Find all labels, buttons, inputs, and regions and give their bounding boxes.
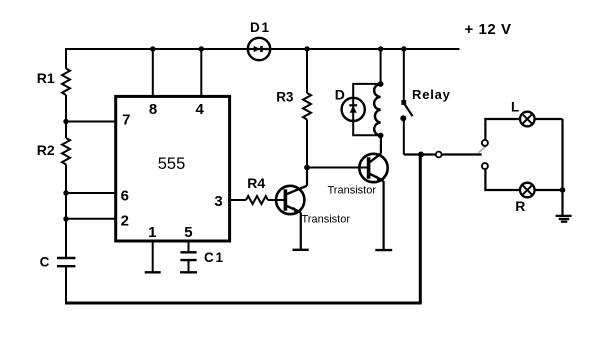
svg-text:Transistor: Transistor	[328, 184, 377, 196]
transistor Q2	[359, 136, 388, 250]
node: pin 8 rail junction	[150, 46, 155, 51]
wire: rail to R3	[306, 49, 308, 93]
wire: node to pin 2	[66, 218, 117, 220]
ground (earth)	[556, 216, 572, 222]
relay switch (coil-operated contact)	[400, 46, 412, 154]
svg-text:555: 555	[158, 155, 186, 173]
node: lamp R / ground bus junction	[560, 187, 566, 193]
capacitor C1	[180, 252, 196, 260]
svg-text:D: D	[335, 86, 345, 102]
connector: open terminal on common wire	[436, 152, 442, 158]
op-amp U1: 555 timer IC body	[116, 96, 230, 241]
svg-text:R: R	[515, 198, 525, 214]
wire: right bus vertical	[561, 119, 563, 216]
wire: node down to Q1 collector	[306, 168, 308, 186]
node: Q1 collector / Q2 base junction	[304, 165, 310, 171]
svg-text:C1: C1	[204, 250, 225, 265]
changeover blade (faint)	[478, 146, 486, 152]
node: coil bottom / D anode	[378, 133, 384, 139]
wire: node to R2	[65, 122, 67, 139]
wire: pin 8 to rail	[152, 49, 154, 96]
svg-text:R1: R1	[37, 70, 55, 86]
svg-text:R4: R4	[247, 175, 265, 191]
resistor R2	[62, 138, 70, 165]
wire: node to pin 7	[66, 121, 117, 123]
ground: Q2 emitter	[375, 249, 392, 251]
svg-text:Relay: Relay	[412, 87, 451, 102]
wire: rail to relay coil	[380, 49, 382, 84]
diode D (flyback, in circle)	[342, 84, 381, 135]
contact: lower (to lamp R)	[482, 163, 488, 169]
svg-text:1: 1	[148, 224, 156, 241]
svg-text:+ 12 V: + 12 V	[465, 21, 512, 38]
wire: R1 to node	[65, 95, 67, 122]
svg-text:3: 3	[214, 193, 222, 210]
wire: R2 down to capacitor C	[65, 165, 67, 258]
svg-text:C: C	[40, 254, 50, 269]
transistor Q1	[276, 186, 307, 249]
wire: pin 4 to rail	[200, 49, 202, 96]
wire: node to pin 6	[66, 192, 117, 194]
wire: lower contact to lamp R	[485, 169, 520, 190]
svg-text:4: 4	[196, 101, 205, 118]
svg-text:7: 7	[122, 112, 130, 129]
node: return junction	[418, 152, 424, 158]
wire: R3 to collector node	[306, 120, 308, 168]
ground: C1	[180, 271, 197, 273]
node: R3 rail junction	[304, 46, 309, 51]
lamp L	[520, 112, 535, 127]
wire: C1 to ground	[188, 261, 190, 272]
wire: pin 1 to ground	[152, 241, 154, 272]
wire: bottom rail	[65, 302, 422, 305]
node: pin 4 rail junction	[199, 46, 204, 51]
svg-text:Transistor: Transistor	[302, 213, 351, 225]
wire: upper contact to lamp L	[485, 119, 520, 140]
svg-text:8: 8	[149, 101, 157, 118]
node: coil rail junction	[378, 46, 383, 51]
wire: switch to changeover common	[404, 153, 482, 155]
svg-text:L: L	[511, 100, 519, 115]
node: R1/R2/pin7 junction	[63, 119, 68, 124]
resistor R1	[62, 69, 70, 96]
node: pin 2 tap	[63, 216, 68, 221]
wire: lamp L to right bus	[535, 118, 563, 120]
relay coil (inductor)	[374, 84, 380, 136]
resistor R4	[246, 196, 268, 204]
svg-text:6: 6	[121, 187, 129, 204]
wire: R4 to Q1 base	[268, 199, 280, 201]
node: pin 6 tap	[63, 190, 68, 195]
wire: C to bottom rail	[65, 267, 67, 303]
wire: pin 3 to R4	[230, 199, 246, 201]
node: coil top / D cathode	[378, 81, 384, 87]
wire: right return vertical	[419, 155, 422, 305]
resistor R3	[303, 93, 311, 120]
wire: +12V top rail	[66, 48, 460, 50]
svg-text:R3: R3	[276, 89, 294, 104]
contact: upper (to lamp L)	[482, 140, 488, 146]
wire: node to Q2 base	[307, 167, 360, 169]
svg-text:R2: R2	[37, 142, 55, 158]
ground: pin 1	[145, 271, 161, 273]
svg-text:5: 5	[184, 224, 192, 241]
diode D1 (in circle on rail)	[248, 38, 270, 60]
ground: Q1 emitter	[293, 249, 309, 251]
wire: lamp R to right bus	[535, 189, 563, 191]
wire: pin 5 to C1	[188, 241, 190, 251]
wire: left rail top stub	[65, 48, 67, 69]
svg-text:2: 2	[121, 213, 129, 230]
lamp R	[520, 183, 535, 198]
capacitor C	[57, 258, 75, 266]
svg-text:D1: D1	[250, 20, 271, 35]
